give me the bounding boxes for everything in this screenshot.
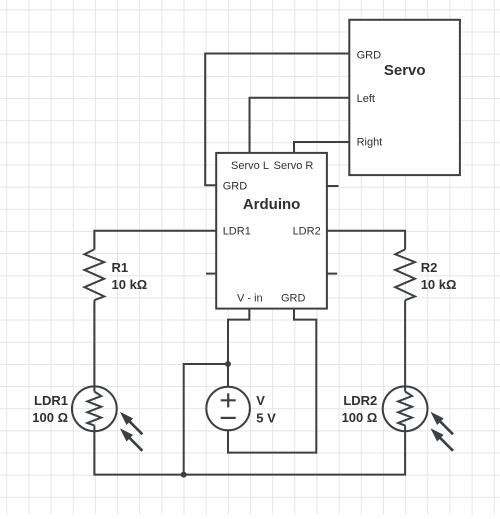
svg-text:R1: R1 (112, 260, 129, 275)
label LDR1 100 Ohm (32, 393, 68, 425)
resistor R2 (395, 249, 415, 300)
svg-text:Left: Left (357, 93, 375, 105)
wire Arduino LDR1 to resistor R1 (94, 231, 216, 250)
wire R2 to LDR2 (404, 300, 406, 391)
svg-text:GRD: GRD (357, 50, 382, 62)
module Arduino (216, 153, 327, 309)
photoresistor LDR1 (72, 386, 142, 450)
module Servo (349, 20, 460, 175)
pin Servo L of Arduino (231, 160, 269, 172)
svg-text:100 Ω: 100 Ω (32, 410, 68, 425)
svg-text:R2: R2 (421, 260, 438, 275)
svg-text:LDR1: LDR1 (34, 393, 68, 408)
svg-text:Servo R: Servo R (274, 160, 314, 172)
svg-text:GRD: GRD (223, 181, 248, 193)
wire bottom rail branch to battery node (184, 364, 228, 475)
svg-text:Servo L: Servo L (231, 160, 269, 172)
pin GRD left of Arduino (223, 181, 248, 193)
svg-text:Servo: Servo (384, 62, 426, 79)
unused pin stub left of Arduino (206, 273, 216, 275)
wire LDR1 bottom rail to LDR2 (94, 426, 405, 475)
unused pin stub right of Arduino (327, 273, 337, 275)
svg-text:5 V: 5 V (256, 410, 276, 425)
resistor R1 (84, 249, 104, 300)
pin V-in of Arduino (237, 293, 263, 305)
photoresistor LDR2 (383, 386, 453, 450)
wire R1 to LDR1 (93, 300, 95, 391)
pin LDR1 of Arduino (223, 225, 251, 237)
svg-text:Arduino: Arduino (243, 196, 301, 213)
svg-text:10 kΩ: 10 kΩ (421, 277, 457, 292)
svg-text:100 Ω: 100 Ω (342, 410, 378, 425)
wire Servo Left to Arduino Servo L (250, 98, 350, 153)
pin GRD bottom of Arduino (281, 293, 306, 305)
junction dot on battery branch (225, 361, 231, 367)
svg-text:Right: Right (357, 137, 383, 149)
svg-text:V: V (256, 393, 265, 408)
wire battery minus to Arduino GRD (228, 309, 316, 453)
pin LDR2 of Arduino (293, 225, 321, 237)
wire Arduino V-in to battery plus (228, 309, 249, 387)
svg-text:GRD: GRD (281, 293, 306, 305)
label R1 10 kOhm (112, 260, 148, 292)
label R2 10 kOhm (421, 260, 457, 292)
wire Servo GRD to Arduino GRD (205, 54, 349, 186)
label LDR2 100 Ohm (342, 393, 378, 425)
unused pin stub right GRD row of Arduino (327, 185, 339, 187)
label V 5V (256, 393, 276, 426)
pin Right of Servo (357, 137, 383, 149)
svg-text:LDR2: LDR2 (293, 225, 321, 237)
svg-text:LDR2: LDR2 (343, 393, 377, 408)
svg-text:V - in: V - in (237, 293, 263, 305)
wire Arduino LDR2 to resistor R2 (327, 231, 405, 250)
pin Servo R of Arduino (274, 160, 314, 172)
pin Left of Servo (357, 93, 375, 105)
voltage source V (206, 387, 250, 431)
pin GRD of Servo (357, 50, 382, 62)
junction dot on bottom rail (181, 472, 187, 478)
svg-text:LDR1: LDR1 (223, 225, 251, 237)
wire Servo Right to Arduino Servo R (294, 142, 349, 153)
svg-text:10 kΩ: 10 kΩ (112, 277, 148, 292)
